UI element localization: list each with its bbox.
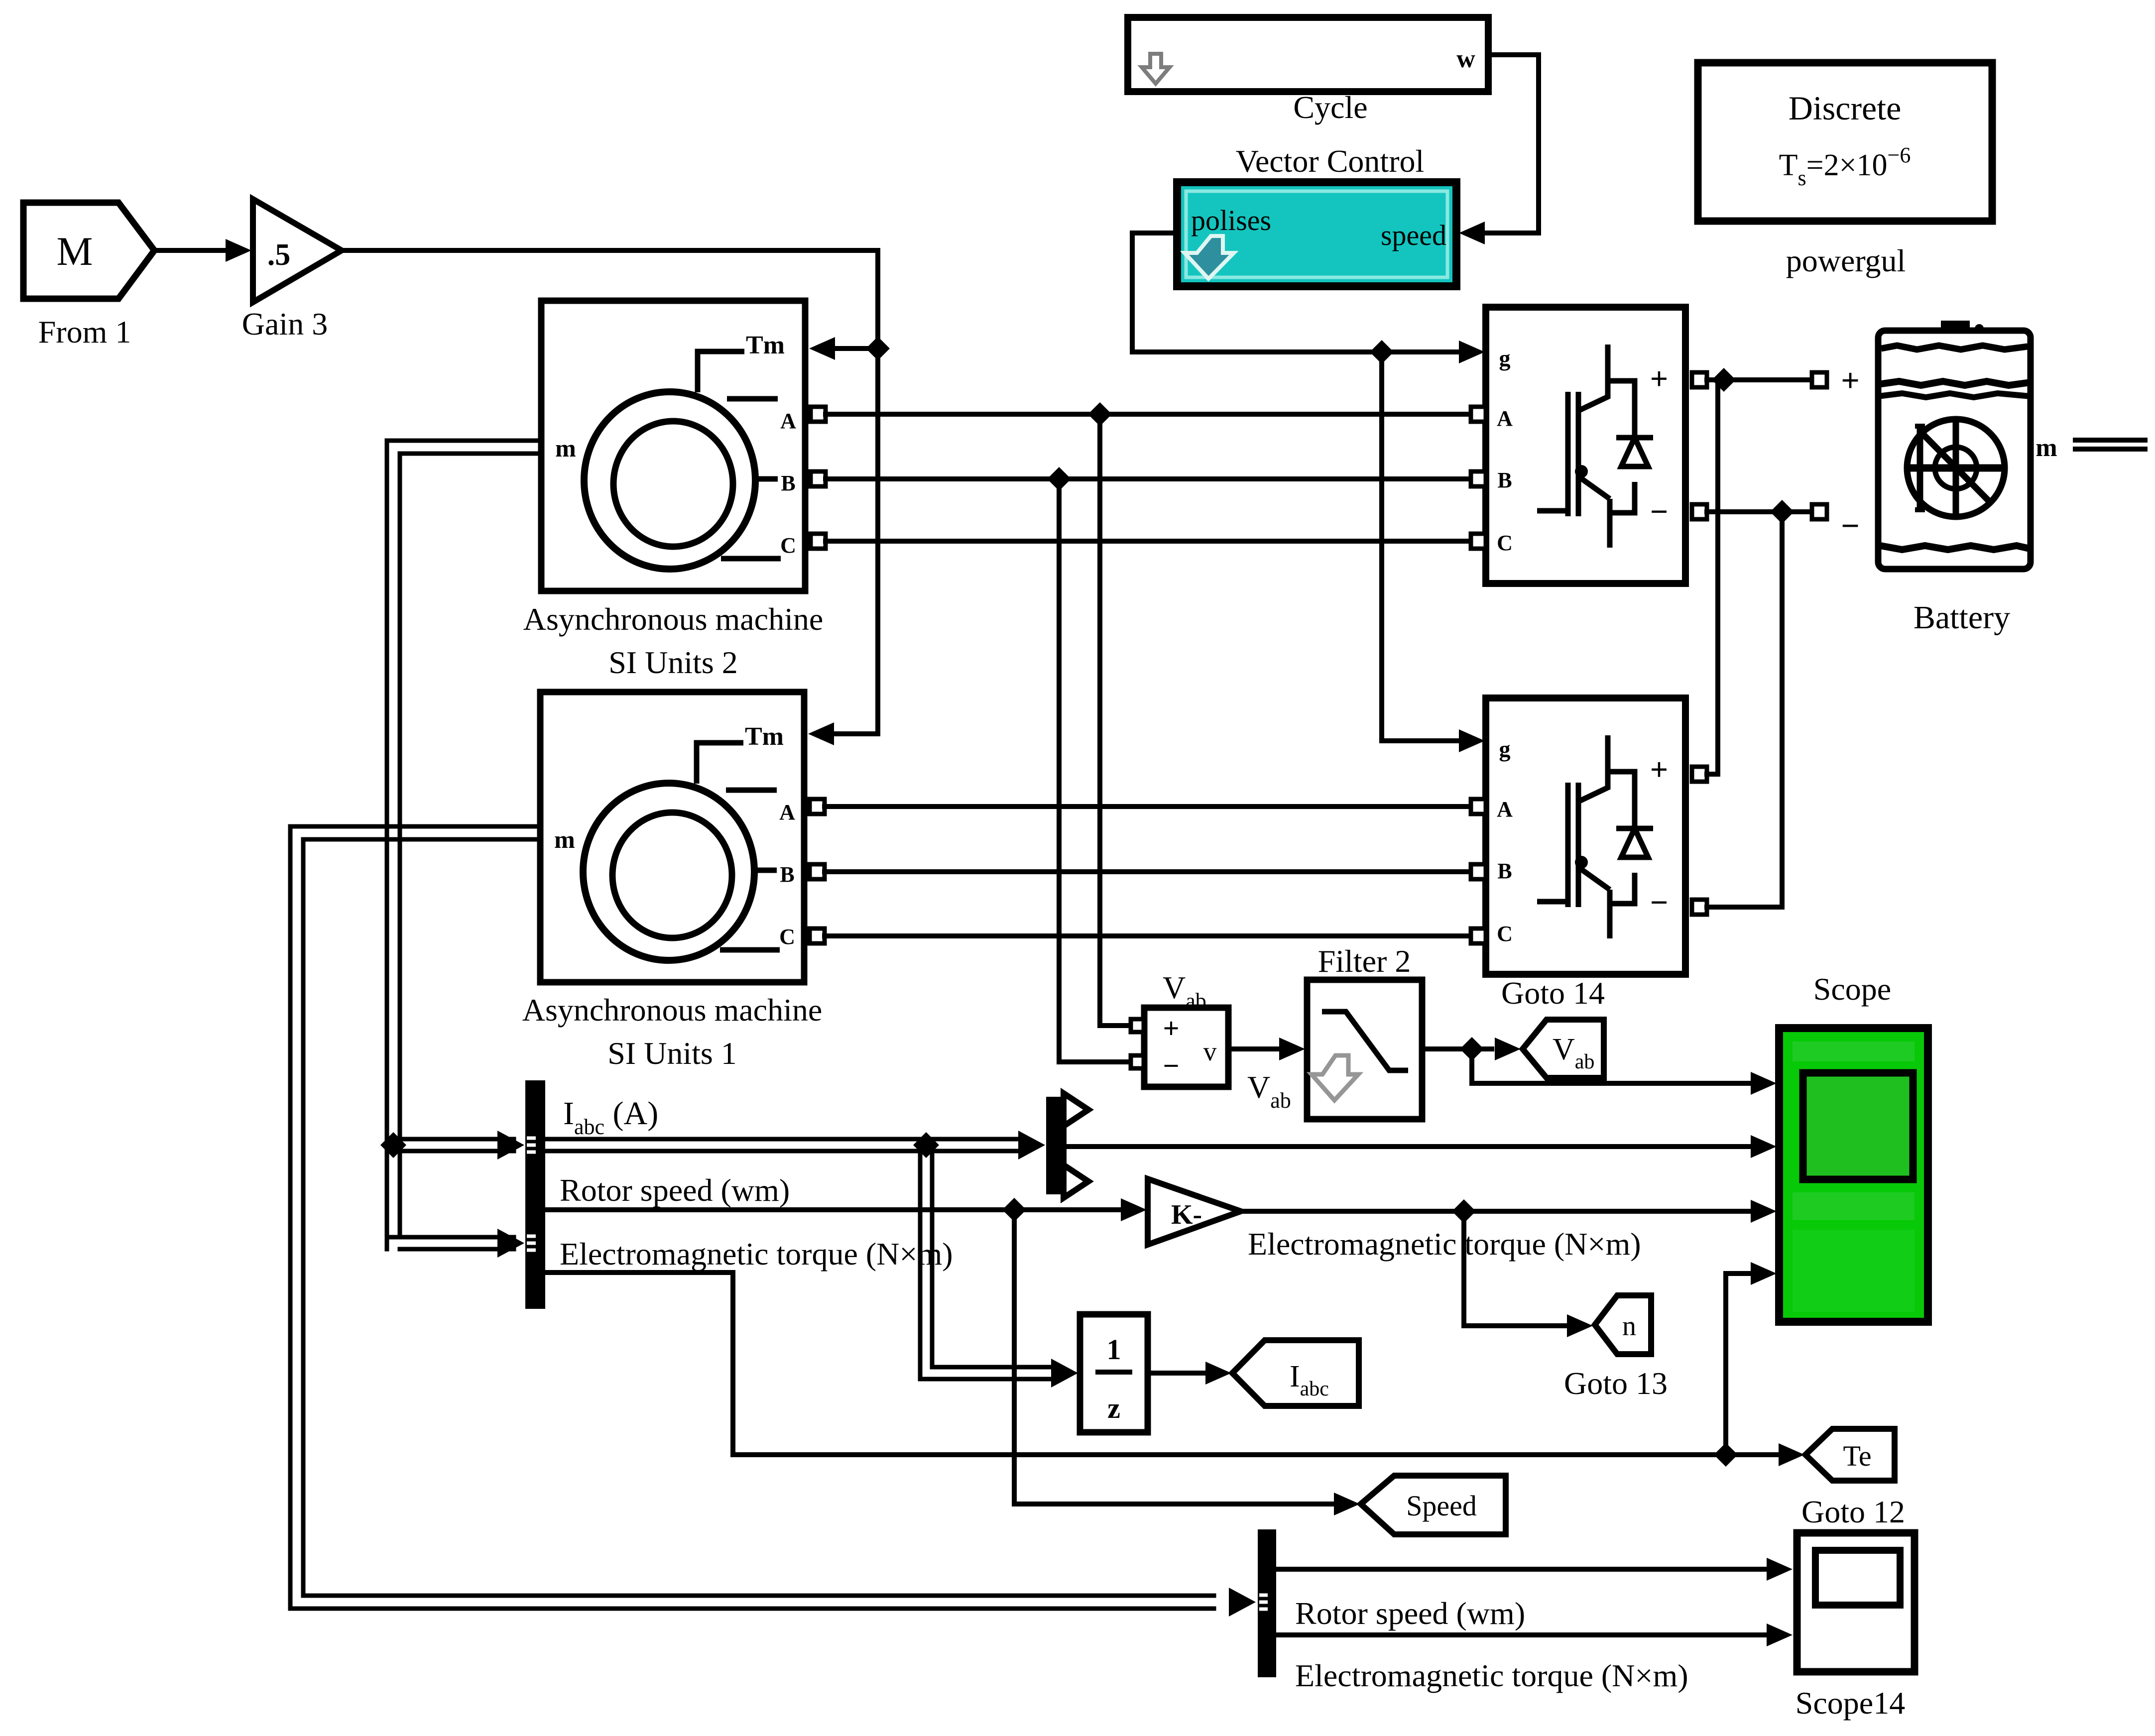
goto tag Iabc [1232, 1340, 1359, 1406]
svg-text:m: m [555, 434, 576, 462]
scope block (green) [1779, 1028, 1928, 1322]
bus Iabc to unit delay [920, 1139, 1051, 1379]
wire From1 to Gain3 [154, 248, 227, 253]
converter 2 output port squares [1692, 767, 1707, 782]
svg-text:SI Units 1: SI Units 1 [607, 1036, 737, 1071]
svg-text:m: m [554, 825, 575, 853]
wire to Te goto tag [1726, 1452, 1781, 1457]
wire converter1 - to battery - [1707, 509, 1812, 514]
svg-text:B: B [780, 862, 794, 887]
wire phase A machine2 to converter1 [826, 412, 1471, 417]
bus machine1 m to bus selector 2 [290, 826, 1214, 1609]
svg-text:Scope: Scope [1813, 971, 1891, 1007]
wire gate to converter 2 [1382, 352, 1461, 741]
scope14 block [1797, 1533, 1915, 1672]
junction torque to Goto13 [1452, 1199, 1476, 1223]
svg-text:Cycle: Cycle [1293, 90, 1367, 125]
wire polises to converter gates [1132, 233, 1461, 352]
junction Iabc split to unit delay [913, 1132, 939, 1158]
svg-text:w: w [1456, 45, 1475, 73]
arrow into Vab goto tag [1472, 1046, 1492, 1051]
battery block [1878, 321, 2031, 569]
svg-text:Gain 3: Gain 3 [242, 306, 328, 342]
bus selector 2 bar [1258, 1529, 1276, 1677]
wire phase B machine1 to converter2 [825, 869, 1471, 874]
svg-text:−: − [1650, 885, 1668, 920]
svg-text:n: n [1622, 1311, 1636, 1342]
wire K- output to scope input 3 [1241, 1209, 1753, 1214]
svg-text:From 1: From 1 [38, 314, 131, 349]
goto tag n (Goto 13) [1595, 1295, 1651, 1354]
goto tag Vab (Goto 14) [1523, 1020, 1604, 1078]
wire branch into Tm of machine 1 [833, 731, 878, 736]
wire v output to filter [1228, 1046, 1281, 1051]
goto tag Te (Goto 12) [1805, 1429, 1895, 1481]
svg-text:+: + [1650, 361, 1668, 396]
svg-text:K-: K- [1171, 1199, 1202, 1230]
svg-text:+: + [1841, 362, 1860, 399]
svg-text:Asynchronous machine: Asynchronous machine [523, 601, 824, 637]
bus selector1 output torque (long Te wire) [545, 1273, 1726, 1455]
svg-text:Goto 12: Goto 12 [1801, 1494, 1905, 1529]
converter 1 output port squares [1692, 372, 1707, 387]
wire down to n goto tag [1464, 1211, 1566, 1326]
gain K- [1148, 1179, 1241, 1245]
filter block [1307, 980, 1422, 1119]
svg-text:Tm: Tm [746, 331, 785, 359]
svg-text:m: m [2035, 434, 2057, 462]
converter 2 input port squares [1471, 799, 1486, 814]
port square battery + [1812, 372, 1827, 387]
discrete powergui block [1698, 63, 1992, 221]
svg-text:1: 1 [1107, 1333, 1121, 1366]
svg-text:Electromagnetic torque (N×m): Electromagnetic torque (N×m) [560, 1236, 953, 1272]
cycle source block [1128, 17, 1488, 92]
svg-text:A: A [1497, 406, 1513, 431]
svg-text:z: z [1107, 1392, 1120, 1424]
svg-text:A: A [780, 409, 796, 433]
svg-text:Discrete: Discrete [1789, 89, 1902, 127]
wire Te up to scope input 4 [1726, 1273, 1753, 1455]
junction phase B tap [1047, 467, 1071, 491]
wire Gain3 output to Tm inputs [342, 250, 878, 734]
wire phase A machine1 to converter2 [825, 804, 1471, 809]
universal bridge converter 2 [1486, 698, 1685, 974]
voltage measurement block [1144, 1008, 1228, 1087]
svg-text:.5: .5 [267, 238, 291, 272]
svg-text:−: − [1163, 1049, 1179, 1082]
svg-text:C: C [780, 533, 796, 558]
junction gate wire split [1370, 340, 1394, 364]
wire demux output to scope input 2 [1067, 1144, 1753, 1149]
wire filter output to scope input 1 [1472, 1049, 1753, 1083]
wire phase A tap to voltage + input [1100, 414, 1131, 1026]
port squares machine 1 outputs [810, 799, 825, 814]
svg-text:Electromagnetic torque (N×m): Electromagnetic torque (N×m) [1248, 1226, 1641, 1262]
svg-text:powergul: powergul [1786, 243, 1906, 278]
port squares machine 2 outputs [811, 407, 826, 422]
filter down-arrow icon [1312, 1055, 1358, 1100]
converter 1 input port squares [1471, 407, 1486, 422]
svg-text:B: B [1497, 468, 1512, 492]
unit delay 1/z block [1080, 1314, 1148, 1432]
wire phase C machine2 to converter1 [826, 539, 1471, 544]
junction phase A tap [1088, 402, 1112, 426]
svg-text:Asynchronous machine: Asynchronous machine [522, 992, 823, 1028]
voltage measurement port squares [1131, 1019, 1144, 1032]
svg-text:Goto 14: Goto 14 [1501, 975, 1605, 1011]
svg-text:g: g [1499, 346, 1511, 371]
svg-text:speed: speed [1381, 219, 1446, 251]
svg-text:Battery: Battery [1914, 599, 2010, 636]
bus selector2 output rotor speed [1276, 1567, 1768, 1572]
junction bus m2 node [380, 1132, 406, 1158]
wire phase C machine1 to converter2 [825, 933, 1471, 938]
wire phase B tap to voltage - input [1059, 479, 1131, 1062]
junction + node [1712, 368, 1736, 392]
junction Te wire split [1714, 1443, 1738, 1467]
battery measurement stub lines [2075, 438, 2145, 443]
arrow Iabc bus into demux [1018, 1131, 1045, 1159]
demux block [1046, 1097, 1067, 1194]
gain Gain 3 [253, 199, 342, 302]
svg-text:−: − [1650, 494, 1668, 529]
vector control subsystem block [1177, 182, 1456, 286]
svg-text:−: − [1841, 508, 1860, 544]
bus selector1 output rotor speed [545, 1207, 1122, 1212]
junction - node [1770, 500, 1794, 524]
svg-text:Scope14: Scope14 [1796, 1685, 1905, 1721]
bus selector2 output torque [1276, 1632, 1768, 1637]
svg-text:Rotor speed (wm): Rotor speed (wm) [1295, 1596, 1525, 1631]
svg-text:A: A [1497, 797, 1513, 821]
svg-text:g: g [1499, 736, 1511, 762]
svg-text:C: C [1497, 531, 1513, 555]
cycle block down-arrow icon [1142, 54, 1170, 84]
svg-text:B: B [1497, 859, 1512, 883]
svg-text:Tm: Tm [745, 722, 784, 751]
svg-text:+: + [1163, 1012, 1179, 1044]
port square battery - [1812, 504, 1827, 519]
universal bridge converter 1 [1486, 307, 1685, 583]
wire rotor speed down to Speed tag [1014, 1210, 1332, 1504]
wire - link to converter 2 [1707, 512, 1782, 907]
wire unit delay to Iabc tag [1148, 1371, 1207, 1376]
bus into selector1 input 1 [387, 1137, 514, 1142]
svg-text:Te: Te [1843, 1440, 1871, 1472]
wire converter1 + to battery + [1707, 377, 1812, 382]
goto tag Speed [1361, 1476, 1506, 1534]
bus into selector1 input 2 [387, 1235, 514, 1240]
svg-text:B: B [781, 471, 795, 495]
svg-text:v: v [1203, 1037, 1217, 1066]
svg-text:C: C [1497, 922, 1513, 946]
svg-text:Rotor speed (wm): Rotor speed (wm) [560, 1172, 790, 1208]
bus selector1 output Iabc double line [545, 1137, 1018, 1142]
junction Tm node [866, 337, 890, 360]
svg-text:C: C [779, 925, 795, 949]
svg-text:+: + [1650, 752, 1668, 787]
svg-text:A: A [779, 800, 795, 824]
svg-text:Filter 2: Filter 2 [1318, 943, 1411, 979]
from tag From 1 [23, 203, 154, 299]
wire branch into Tm of machine 2 [833, 346, 878, 351]
bus machine2 m to bus selector 1 [387, 441, 541, 1249]
bus selector 1 bar [525, 1080, 545, 1309]
wire w output to speed input [1485, 55, 1539, 233]
wire phase B machine2 to converter1 [826, 476, 1471, 481]
svg-text:Electromagnetic torque (N×m): Electromagnetic torque (N×m) [1295, 1658, 1688, 1693]
wire + link to converter 2 [1707, 380, 1718, 774]
svg-text:polises: polises [1191, 204, 1271, 236]
junction rotor speed to Speed tag [1002, 1198, 1026, 1222]
junction filter output [1460, 1037, 1484, 1061]
svg-text:SI Units 2: SI Units 2 [608, 645, 738, 680]
svg-text:Goto 13: Goto 13 [1564, 1366, 1668, 1401]
asynchronous machine SI Units 2 [541, 301, 805, 591]
svg-text:Speed: Speed [1406, 1490, 1477, 1522]
svg-text:M: M [57, 229, 93, 274]
asynchronous machine SI Units 1 [540, 692, 804, 982]
svg-text:Vector Control: Vector Control [1236, 143, 1425, 179]
vector control down-arrow icon [1185, 236, 1234, 279]
wire filter output [1422, 1046, 1472, 1051]
